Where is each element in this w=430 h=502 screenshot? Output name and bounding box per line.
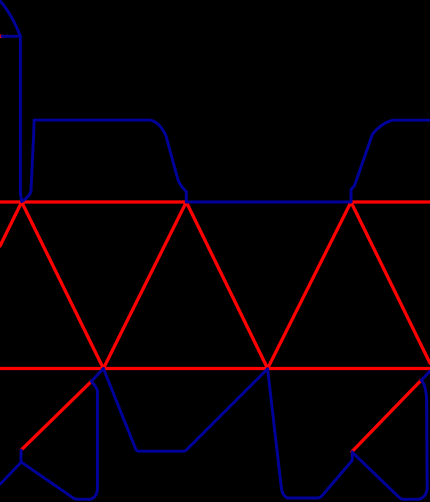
cut line: flap under B2 (vertical, bottom, 45-degree rise) bbox=[268, 369, 353, 498]
cut line: glue strip arc at top-left bbox=[0, 1, 20, 36]
cut line: glue strip left vertical down to apex T1 bbox=[20, 36, 21, 201]
fold line: bottom horizontal full width (red) bbox=[0, 367, 430, 370]
cut line: steep flap between B1 and B2 bbox=[103, 369, 267, 452]
cut line: top edge between lid flaps (blue segment of top horizontal) bbox=[186, 201, 351, 204]
cut line: glue strip small horizontal at y=36 bbox=[2, 35, 20, 38]
fold line: top horizontal right segment (red) bbox=[351, 200, 430, 203]
cut line: hook from fold end toward apex B3 at right edge bbox=[421, 371, 430, 380]
fold line: diagonal T2 to B2 bbox=[186, 202, 267, 369]
fold line: diagonal from apex T1 exiting left edge bbox=[0, 202, 22, 246]
fold line: diagonal T3 exiting right edge bbox=[351, 202, 430, 363]
fold line: bottom-right flap diagonal fold bbox=[352, 380, 421, 451]
cut line: bottom-left diagonal exiting left edge bbox=[0, 462, 21, 484]
fold line: top horizontal left segment (red) bbox=[0, 200, 186, 203]
fold line: diagonal T1 to B1 bbox=[22, 202, 104, 369]
cut line: bottom-right glue flap diagonal, bottom and vertical bbox=[353, 380, 427, 499]
fold line: diagonal T3 to B2 bbox=[268, 202, 351, 369]
fold line: tiny red stub at top-left edge bbox=[0, 35, 2, 38]
cut line: bottom-left glue flap, apex B1 hook to vertical and bottom bbox=[21, 369, 104, 500]
fold line: diagonal T2 to B1 bbox=[103, 202, 186, 369]
fold line: bottom-left flap diagonal fold bbox=[21, 381, 91, 449]
cut line: lid flap 1 outline (left edge, top, right edge) bbox=[22, 120, 187, 202]
cut line: lid flap 2 left edge and top bbox=[351, 120, 430, 201]
